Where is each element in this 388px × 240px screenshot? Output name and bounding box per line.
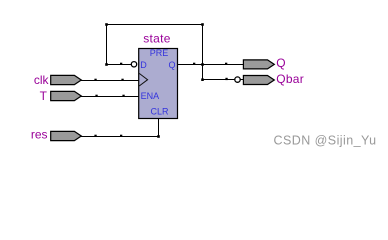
- wire Qbar branch: [203, 79, 236, 81]
- wire bump Qbar: [225, 78, 227, 80]
- wire vertical at Q junction: [202, 25, 204, 81]
- wire D input horizontal: [106, 64, 132, 66]
- wire bump clk 1: [94, 79, 96, 81]
- svg-text:res: res: [31, 127, 48, 141]
- svg-text:clk: clk: [34, 73, 50, 87]
- junction dot (202,80): [201, 78, 204, 81]
- output pin tag Q: [243, 60, 274, 69]
- wire bump res 1: [94, 135, 96, 137]
- junction dot (106,64): [105, 63, 108, 66]
- wire bump D: [120, 63, 122, 65]
- wire Q output: [178, 64, 244, 66]
- wire stub bubble to Qbar tag: [240, 79, 244, 81]
- svg-text:T: T: [40, 89, 48, 103]
- junction dot (202,64): [201, 63, 204, 66]
- svg-text:PRE: PRE: [150, 48, 169, 58]
- output pin tag Qbar: [243, 76, 274, 85]
- input pin tag clk: [51, 75, 82, 84]
- wire clk to DFF clock: [81, 80, 139, 82]
- junction dot (158,136): [157, 135, 160, 138]
- svg-text:CLR: CLR: [150, 107, 169, 117]
- junction dot (202,24): [201, 23, 204, 26]
- svg-text:Qbar: Qbar: [276, 72, 304, 86]
- DFF clock triangle: [139, 73, 147, 86]
- wire bump Q 2: [225, 63, 227, 65]
- svg-text:Q: Q: [168, 60, 175, 70]
- wire feedback Q to D (top loop): [107, 25, 203, 65]
- DFF instance box (state): [139, 49, 178, 119]
- svg-text:Q: Q: [276, 56, 285, 70]
- wire bump T 1: [95, 95, 97, 97]
- inverter bubble on D input: [131, 62, 136, 67]
- input pin tag res: [51, 131, 82, 140]
- wire bump T 2: [122, 95, 124, 97]
- input pin tag T: [51, 91, 82, 100]
- svg-text:CSDN @Sijin_Yu: CSDN @Sijin_Yu: [274, 133, 377, 147]
- svg-text:ENA: ENA: [141, 91, 160, 101]
- wire bump Q 1: [193, 63, 195, 65]
- svg-text:state: state: [143, 31, 171, 45]
- wire res to DFF CLR: [81, 118, 159, 137]
- wire bump clk 2: [121, 79, 123, 81]
- junction dot (106,24): [105, 23, 108, 26]
- wire bump res 2: [120, 135, 122, 137]
- wire T to DFF ENA: [81, 96, 139, 98]
- inverter bubble on Qbar: [235, 77, 240, 82]
- svg-text:D: D: [140, 60, 147, 70]
